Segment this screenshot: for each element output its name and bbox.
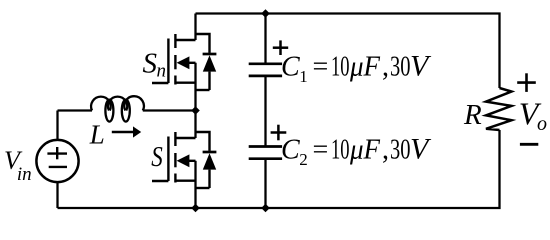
svg-text:L: L xyxy=(89,120,105,150)
svg-text:o: o xyxy=(537,113,547,135)
svg-text:R: R xyxy=(463,99,482,131)
svg-text:in: in xyxy=(17,164,32,185)
svg-text:S: S xyxy=(151,141,163,173)
svg-text:S: S xyxy=(143,47,158,79)
svg-text:n: n xyxy=(157,61,167,82)
